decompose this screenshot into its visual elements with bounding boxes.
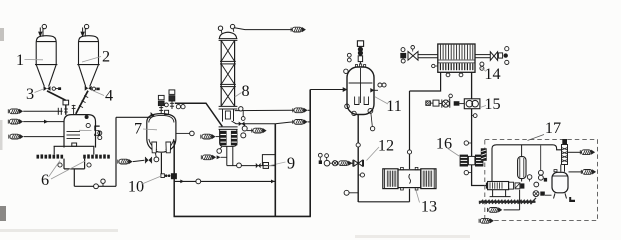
- fitting dash right of hopper 1 valve: [56, 88, 58, 90]
- bottom transfer line y181: [174, 180, 275, 182]
- svg-text:11: 11: [386, 97, 402, 115]
- transfer line to riser: [74, 185, 116, 187]
- column 8 sump: [223, 109, 234, 122]
- svg-text:3: 3: [26, 85, 34, 103]
- reboiler left bellows block: [220, 131, 227, 146]
- packing section 1 X: [221, 40, 234, 61]
- vessel 11 right gauge stub: [374, 89, 378, 91]
- reactor 5 dome right nozzle dot: [85, 115, 89, 119]
- reactor 7 vessel with jacket: [147, 114, 176, 153]
- vessel 11 internal level line: [349, 82, 373, 84]
- receiver legs: [554, 193, 556, 198]
- machine legs and base: [492, 190, 494, 197]
- pipe1 column overhead product: [235, 109, 294, 111]
- pump 13 centre casing: [398, 170, 421, 188]
- svg-text:10: 10: [128, 178, 144, 196]
- fitting circle right of drop line: [358, 174, 360, 176]
- vessel 11 relief stem: lower rect: [358, 56, 362, 62]
- section divider 1: [220, 60, 236, 62]
- hopper 2 top feed arrow: [80, 32, 84, 38]
- svg-text:12: 12: [378, 137, 394, 155]
- outlet black dot: [504, 53, 508, 57]
- valve at hopper 2 outlet: [85, 86, 92, 91]
- vessel 11 capsule body: [347, 67, 374, 115]
- outlet vent circles: [505, 47, 509, 51]
- circle on pipe1: [239, 107, 243, 111]
- exchanger 14 plates bottom row: [440, 63, 472, 70]
- exchanger 14 discharge pipe from pump 13: [410, 72, 441, 91]
- scan streak bottom left: [0, 229, 118, 232]
- svg-text:13: 13: [421, 198, 437, 216]
- fitting circle below unit 16: [468, 172, 471, 174]
- hopper 2 top vent stem: [85, 28, 86, 36]
- svg-text:4: 4: [105, 87, 113, 105]
- discharge valve row 6 left: [37, 154, 64, 158]
- scan smudge left edge middle: [0, 120, 3, 150]
- heater drop to receiver: [560, 165, 562, 172]
- receiver vessel in box 17: [552, 172, 568, 193]
- reactor 7 right side nozzle circle: [176, 132, 190, 134]
- main riser under column: [274, 124, 276, 217]
- svg-text:7: 7: [134, 120, 142, 138]
- reactor 5 bottom outlet stub: [72, 143, 77, 146]
- vent circle above transfer line: [101, 179, 105, 183]
- fitting block right of hopper 2 valve: [96, 88, 99, 91]
- overhead line to reactor 7: [116, 116, 151, 118]
- shoulder circle left: [344, 69, 348, 73]
- small square fitting left of dome: [165, 110, 169, 114]
- foundation hatch strip: [479, 200, 534, 204]
- side drain train in box 17: [540, 146, 542, 171]
- vessel 11 agitator shaft: [360, 68, 362, 103]
- reboiler right bellows block: [231, 131, 238, 146]
- vessel 11 bottom internals: [355, 97, 359, 105]
- reactor 7 bottom outlet drop: [160, 153, 162, 174]
- fitting circle left of main line upper: [468, 142, 471, 144]
- column 8 shell: [220, 40, 222, 106]
- feed line 1 into reactor 5: [8, 109, 23, 114]
- exchanger 14 plates top row: [440, 45, 472, 60]
- reactor 5 right side gauge circles: [98, 131, 102, 135]
- reboiler drain circle: [220, 147, 222, 149]
- hopper 1 body: [35, 36, 57, 87]
- drain drop and arrow in box 17: [519, 190, 521, 210]
- reactor 5 vessel body: [64, 115, 96, 148]
- vessel 11 relief stem: rupture square: [357, 41, 363, 47]
- fitting circle between stacks: [165, 103, 169, 107]
- hopper 2 body: [77, 36, 99, 87]
- reboiler body: [220, 129, 237, 146]
- main bottom header line: [174, 215, 311, 217]
- vessel 11 bottom nozzle circles: [345, 104, 350, 109]
- column 8 overhead line to vent arrow: [234, 28, 292, 30]
- exchanger 14 bottom nozzle circles: [447, 71, 449, 74]
- svg-text:15: 15: [484, 95, 500, 113]
- svg-text:6: 6: [41, 171, 49, 189]
- main vertical line from exchanger to box 17: [472, 72, 488, 185]
- scan smudge left edge bottom: [0, 206, 6, 221]
- reboiler discharge legs: [226, 146, 228, 165]
- outlet bowtie valve: [490, 52, 497, 61]
- vessel 11 relief stem: double ball: [358, 47, 363, 52]
- pump 13 suction/discharge vertical line: [409, 91, 411, 169]
- gear pump 15: [464, 99, 480, 109]
- reactor 7 right downcomer: [173, 141, 175, 218]
- liquid line to right arrow lower: [569, 171, 583, 173]
- flexible coupling 16: [460, 155, 468, 167]
- bottom-left arrow on box edge: [479, 218, 494, 223]
- pump 13 right finned block: [421, 169, 436, 189]
- bypass jog over valve 9: [262, 155, 275, 166]
- column 8 bottom flange: [219, 105, 238, 107]
- fitting circle right of hopper 2 valve: [92, 87, 95, 90]
- drain fittings row left of valve 12: [318, 153, 322, 157]
- valve 12 flanged bowtie: [352, 160, 354, 167]
- inline box on hopper1 downpipe: [63, 100, 69, 105]
- drain cluster 10: black valve: [171, 173, 177, 179]
- vent circles left of stem: [347, 53, 351, 57]
- internal pipe frame: [492, 145, 562, 181]
- svg-text:14: 14: [484, 65, 500, 83]
- feed line 3 into reactor 5: [9, 134, 24, 139]
- svg-text:5: 5: [93, 122, 101, 140]
- bottom link line to pump 13: [358, 201, 409, 203]
- drain circle lower left of drop line: [349, 192, 358, 194]
- reactor 5 right wall fitting: [86, 123, 90, 127]
- pipe2 column bottoms: [232, 121, 276, 124]
- hopper 1 top feed arrow: [38, 32, 42, 38]
- fitting circle below pump 15: [472, 115, 474, 117]
- steam arrow lower left: [201, 155, 216, 160]
- reactor 5 left dome nozzle: [64, 108, 68, 115]
- feed line 2 into reactor 5: [8, 119, 23, 124]
- pump 13 left finned block: [383, 169, 398, 189]
- reactor 7 vapour line to column 8: [175, 103, 223, 126]
- drain cluster 10: square: [161, 174, 165, 178]
- vessel 11 top nozzle ticks: [355, 65, 357, 68]
- exchanger 14 tube sheet lines: [438, 59, 475, 61]
- overhead vent arrow: [291, 27, 306, 32]
- exchanger 14 outlet double pipe: [475, 54, 490, 56]
- packing section 2 X: [221, 64, 234, 85]
- svg-text:9: 9: [287, 154, 295, 173]
- discharge valve row 6 right: [83, 154, 110, 158]
- reactor 5 bottom skirt flange: [54, 146, 95, 154]
- exchanger 14 right vent double circle: [480, 62, 484, 66]
- bottoms line to main riser: [227, 165, 275, 167]
- reactor 7 bottom left fitting circle: [154, 157, 159, 162]
- reactor 7 left top fitting stack: [158, 95, 164, 114]
- valve 9 square body: [263, 163, 268, 169]
- drain circle under right valve row: [87, 163, 91, 167]
- line riser top to vessel 11: [310, 89, 343, 91]
- scan smudge left edge top: [0, 28, 4, 41]
- finned heater element with black cap: [562, 139, 567, 145]
- hopper 2 top vent ball: [84, 24, 88, 28]
- pipe hopper1 outlet to reactor 5: [47, 91, 66, 100]
- hopper 1 top vent stem: [43, 28, 44, 36]
- drain cluster 10: dots: [165, 174, 168, 177]
- riser to condensate vessel 11: [309, 90, 311, 217]
- column 8 top vent balls: [218, 26, 222, 30]
- circle fitting below pipe1: [242, 111, 244, 117]
- pump 15 suction fittings row: [426, 101, 431, 106]
- circle with stem near machine right: [527, 175, 532, 180]
- svg-text:17: 17: [545, 119, 561, 137]
- fitting circle right of hopper 1 valve: [52, 87, 55, 90]
- reactor 7 support legs: [152, 142, 171, 153]
- side vent arrow from drain: [247, 130, 253, 132]
- internal column in box 17: [521, 145, 523, 157]
- valve 9 dark bowtie: [256, 163, 261, 168]
- vapour line to right arrow upper: [568, 151, 582, 153]
- hopper 1 top vent ball: [42, 24, 46, 28]
- svg-text:1: 1: [16, 51, 24, 69]
- feed arrow into reboiler left: [201, 134, 216, 139]
- pipe1 arrow into riser: [293, 108, 308, 113]
- drain circles below pipe2: [244, 124, 246, 127]
- drain circle under left valve row: [58, 163, 62, 167]
- reactor 5 centre dome nozzle: [72, 105, 76, 115]
- vertical hatched marker on box left edge: [481, 148, 487, 161]
- exchanger 14 shell: [438, 44, 475, 72]
- downpipe into reactor 5 dome: [65, 105, 67, 115]
- black foot mark: [569, 197, 575, 202]
- valve at hopper 1 outlet: [44, 86, 51, 91]
- circle on transfer line: [94, 184, 99, 189]
- reactor 7 left shoulder nozzle nub: [151, 112, 156, 117]
- section divider 2: [220, 83, 236, 85]
- bowtie valve on pipe2: [239, 122, 245, 127]
- outlet square fitting: [498, 53, 502, 58]
- dashed enclosure 17: [485, 140, 598, 221]
- svg-text:2: 2: [102, 48, 110, 66]
- feed arrow into reactor 7 bottom valve: [118, 159, 133, 164]
- small valve on reactor 7 bottom feed: [144, 157, 146, 163]
- vessel 11 bottom drop line: [357, 115, 359, 203]
- feed valve cluster left of exchanger: [401, 48, 405, 52]
- packing section 3 X: [221, 87, 234, 107]
- svg-text:8: 8: [241, 82, 249, 100]
- dryer machine in box 17: [488, 182, 509, 190]
- reactor 5 internal level lines: [67, 132, 81, 139]
- riser to reactor 7: [115, 117, 117, 186]
- hose hopper2 outlet to reactor 5 dome: [76, 91, 88, 114]
- exchanger 14 inlet double pipe: [418, 54, 438, 56]
- feed arrow into valve 12: [338, 161, 353, 166]
- reboiler top flange: [219, 126, 238, 128]
- exchanger 14 left drain circle: [435, 65, 438, 67]
- collector U under reactor 5: [64, 159, 85, 187]
- column 8 dome: [219, 32, 236, 38]
- pipe2 arrow into riser: [293, 119, 308, 124]
- vent circles on vapour line: [176, 105, 180, 109]
- reactor 7 right top fitting stack: [169, 90, 175, 109]
- scan streak bottom right: [355, 235, 470, 238]
- flange circle on drop line: [356, 143, 360, 147]
